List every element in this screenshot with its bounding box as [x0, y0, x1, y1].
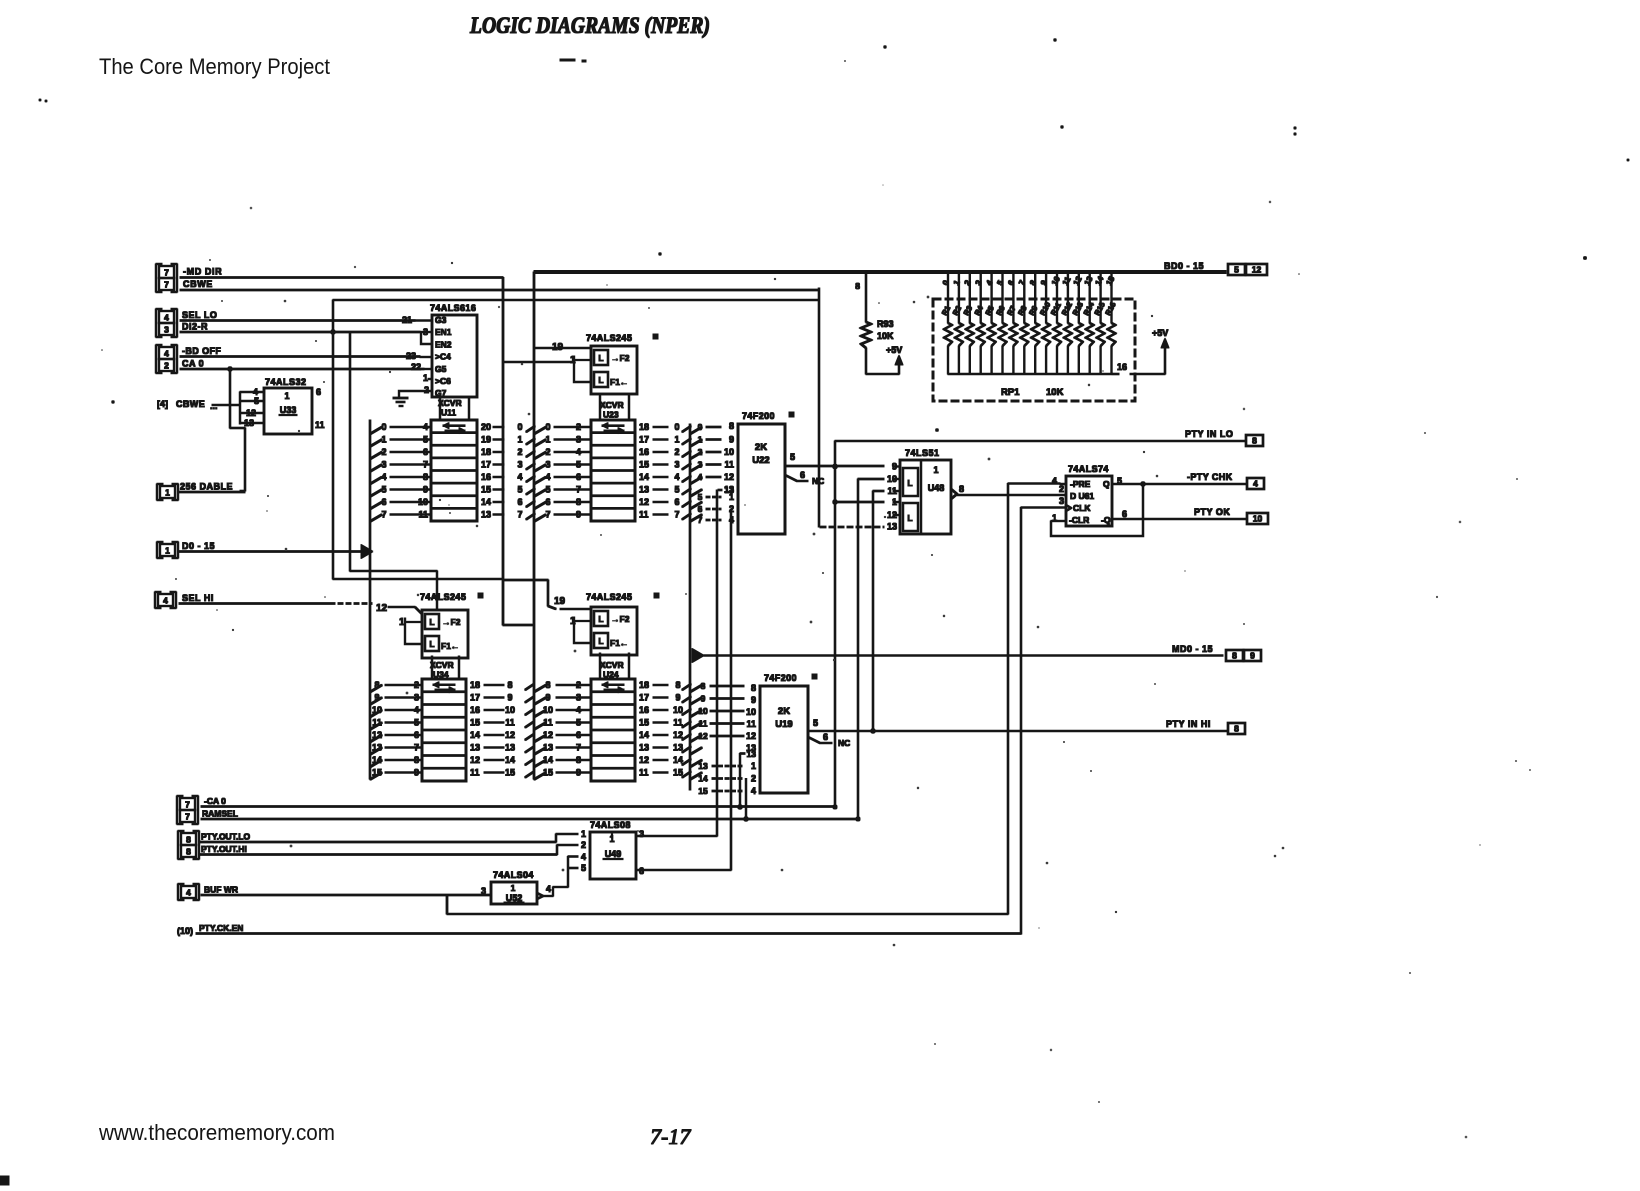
- svg-text:RAMSEL: RAMSEL: [202, 809, 238, 819]
- svg-text:L: L: [598, 375, 603, 385]
- svg-text:5: 5: [1234, 265, 1239, 275]
- svg-text:4: 4: [163, 596, 168, 606]
- svg-text:74LS51: 74LS51: [905, 448, 940, 458]
- svg-text:0: 0: [381, 422, 386, 432]
- svg-text:13: 13: [372, 743, 382, 753]
- svg-text:3: 3: [674, 460, 679, 470]
- svg-text:→F2: →F2: [611, 353, 630, 363]
- svg-text:CA 0: CA 0: [182, 359, 204, 369]
- svg-text:XCVR: XCVR: [438, 398, 462, 408]
- svg-text:9: 9: [675, 693, 680, 703]
- svg-text:2: 2: [424, 385, 429, 395]
- svg-text:-PRE: -PRE: [1070, 479, 1091, 489]
- svg-text:9: 9: [701, 694, 706, 704]
- svg-text:21: 21: [402, 315, 412, 325]
- svg-text:15: 15: [470, 718, 480, 728]
- svg-text:4: 4: [674, 472, 679, 482]
- svg-text:8: 8: [576, 755, 581, 765]
- svg-text:PTY.OUT.HI: PTY.OUT.HI: [201, 844, 247, 854]
- svg-text:9: 9: [414, 768, 419, 778]
- svg-text:DI2-R: DI2-R: [182, 322, 208, 332]
- svg-text:1: 1: [284, 391, 289, 401]
- svg-text:5: 5: [995, 278, 1005, 287]
- svg-text:14: 14: [639, 730, 649, 740]
- svg-text:10: 10: [698, 706, 708, 716]
- svg-text:8: 8: [414, 755, 419, 765]
- svg-text:XCVR: XCVR: [430, 660, 454, 670]
- svg-text:4: 4: [546, 884, 551, 894]
- svg-text:6: 6: [316, 387, 321, 397]
- svg-text:U33: U33: [280, 405, 297, 415]
- svg-text:2K: 2K: [778, 706, 790, 717]
- svg-text:14: 14: [372, 755, 382, 765]
- svg-text:1: 1: [729, 492, 734, 502]
- svg-text:5: 5: [674, 485, 679, 495]
- svg-text:>C6: >C6: [435, 376, 451, 386]
- svg-text:14: 14: [1093, 274, 1105, 287]
- svg-text:PTY IN HI: PTY IN HI: [1166, 719, 1211, 729]
- svg-text:6: 6: [1006, 278, 1016, 287]
- svg-text:19: 19: [554, 596, 566, 607]
- svg-text:2: 2: [164, 361, 169, 371]
- svg-text:18: 18: [470, 680, 480, 690]
- svg-text:11: 11: [699, 719, 708, 729]
- svg-text:7: 7: [698, 515, 703, 525]
- svg-text:0: 0: [941, 278, 951, 287]
- svg-text:15: 15: [372, 768, 382, 778]
- svg-text:7: 7: [517, 510, 522, 520]
- svg-text:[4]: [4]: [157, 399, 168, 409]
- svg-text:U48: U48: [928, 483, 945, 493]
- svg-text:12: 12: [746, 731, 756, 741]
- svg-text:PTY.OUT.LO: PTY.OUT.LO: [201, 832, 251, 842]
- svg-text:15: 15: [673, 768, 683, 778]
- svg-text:2K: 2K: [755, 442, 767, 453]
- svg-text:-CLR: -CLR: [1069, 515, 1089, 525]
- svg-text:3: 3: [481, 886, 486, 896]
- svg-text:11: 11: [639, 510, 649, 520]
- svg-text:14: 14: [505, 755, 515, 765]
- svg-text:8: 8: [186, 835, 191, 845]
- svg-text:18: 18: [639, 422, 649, 432]
- svg-text:8: 8: [1232, 651, 1237, 661]
- svg-text:8: 8: [1252, 436, 1257, 446]
- svg-text:→F2: →F2: [611, 614, 630, 624]
- svg-text:9: 9: [1039, 278, 1049, 287]
- svg-text:15: 15: [639, 460, 649, 470]
- svg-text:12: 12: [1072, 274, 1084, 287]
- svg-text:The Core Memory Project: The Core Memory Project: [99, 54, 330, 79]
- svg-text:R7: R7: [1005, 304, 1017, 317]
- svg-text:R3: R3: [962, 304, 974, 317]
- svg-text:19: 19: [481, 435, 491, 445]
- svg-text:74ALS245: 74ALS245: [586, 333, 632, 343]
- svg-text:74ALS32: 74ALS32: [265, 377, 307, 387]
- svg-text:NC: NC: [838, 738, 850, 748]
- svg-text:6: 6: [674, 497, 679, 507]
- svg-text:3: 3: [576, 435, 581, 445]
- svg-text:1: 1: [399, 617, 405, 628]
- svg-text:10: 10: [724, 447, 734, 457]
- svg-text:...: ...: [210, 401, 218, 411]
- svg-text:3: 3: [414, 693, 419, 703]
- svg-text:G7: G7: [435, 388, 447, 398]
- svg-text:8: 8: [855, 281, 860, 291]
- svg-text:14: 14: [673, 755, 683, 765]
- svg-text:1: 1: [952, 278, 962, 287]
- svg-text:R5: R5: [983, 304, 995, 317]
- svg-text:1: 1: [423, 373, 428, 383]
- svg-text:9: 9: [576, 510, 581, 520]
- svg-text:8: 8: [729, 421, 734, 431]
- svg-text:14: 14: [639, 472, 649, 482]
- svg-text:2: 2: [698, 447, 703, 457]
- svg-text:12: 12: [724, 472, 734, 482]
- svg-text:4: 4: [381, 472, 386, 482]
- svg-text:12: 12: [376, 603, 388, 614]
- svg-text:3: 3: [545, 460, 550, 470]
- svg-text:5: 5: [813, 718, 818, 728]
- svg-text:11: 11: [372, 718, 382, 728]
- svg-text:8: 8: [374, 680, 379, 690]
- svg-text:R2: R2: [951, 304, 963, 317]
- svg-text:11: 11: [505, 718, 515, 728]
- svg-text:7: 7: [381, 510, 386, 520]
- svg-text:9: 9: [576, 768, 581, 778]
- svg-text:7: 7: [164, 280, 169, 290]
- svg-text:6: 6: [414, 730, 419, 740]
- svg-text:11: 11: [639, 768, 649, 778]
- svg-text:7: 7: [576, 743, 581, 753]
- svg-text:3: 3: [639, 829, 644, 839]
- svg-text:1: 1: [165, 546, 170, 556]
- svg-text:9: 9: [1250, 651, 1255, 661]
- svg-text:5: 5: [698, 492, 703, 502]
- svg-text:F1←: F1←: [441, 641, 459, 651]
- svg-text:4: 4: [698, 472, 703, 482]
- svg-text:15: 15: [639, 718, 649, 728]
- svg-text:1: 1: [517, 435, 522, 445]
- svg-text:Q: Q: [1103, 479, 1110, 489]
- svg-text:F1←: F1←: [610, 638, 628, 648]
- svg-text:4: 4: [414, 705, 419, 715]
- svg-text:2: 2: [963, 278, 973, 287]
- svg-text:6: 6: [639, 866, 644, 876]
- svg-text:4: 4: [423, 422, 428, 432]
- svg-text:17: 17: [481, 460, 491, 470]
- svg-text:(10): (10): [177, 926, 193, 936]
- svg-text:2: 2: [517, 447, 522, 457]
- svg-text:3: 3: [974, 278, 984, 287]
- svg-text:12: 12: [698, 731, 708, 741]
- svg-text:L: L: [598, 353, 603, 363]
- svg-text:11: 11: [470, 768, 480, 778]
- svg-text:+5V: +5V: [886, 345, 902, 355]
- svg-text:13: 13: [887, 522, 897, 532]
- svg-text:12: 12: [639, 755, 649, 765]
- svg-text:PTY IN LO: PTY IN LO: [1185, 429, 1233, 439]
- svg-text:2: 2: [581, 840, 586, 850]
- svg-text:5: 5: [381, 485, 386, 495]
- svg-text:6: 6: [517, 497, 522, 507]
- svg-text:3: 3: [517, 460, 522, 470]
- svg-text:4: 4: [581, 852, 586, 862]
- svg-text:15: 15: [698, 786, 708, 796]
- svg-text:3: 3: [381, 460, 386, 470]
- svg-text:16: 16: [470, 705, 480, 715]
- svg-text:7: 7: [185, 812, 190, 822]
- svg-text:11: 11: [746, 719, 756, 729]
- svg-text:1: 1: [581, 829, 586, 839]
- svg-text:6: 6: [576, 730, 581, 740]
- svg-text:2: 2: [545, 447, 550, 457]
- svg-text:R6: R6: [994, 304, 1006, 317]
- svg-text:0: 0: [698, 422, 703, 432]
- svg-text:14: 14: [698, 774, 708, 784]
- svg-text:6: 6: [545, 497, 550, 507]
- svg-text:R1: R1: [940, 304, 952, 317]
- svg-text:D U61: D U61: [1070, 491, 1094, 501]
- svg-text:4: 4: [164, 349, 169, 359]
- svg-text:SEL LO: SEL LO: [182, 310, 217, 320]
- svg-text:8: 8: [701, 681, 706, 691]
- svg-text:4: 4: [164, 313, 169, 323]
- svg-text:0: 0: [545, 422, 550, 432]
- svg-text:6: 6: [576, 472, 581, 482]
- svg-text:BUF WR: BUF WR: [204, 885, 238, 895]
- svg-text:13: 13: [639, 743, 649, 753]
- svg-text:2: 2: [576, 680, 581, 690]
- svg-text:7-17: 7-17: [650, 1124, 691, 1149]
- svg-text:9: 9: [729, 435, 734, 445]
- svg-text:7: 7: [185, 800, 190, 810]
- svg-text:6: 6: [1122, 509, 1127, 519]
- svg-text:74ALS08: 74ALS08: [590, 820, 631, 830]
- svg-text:6: 6: [698, 504, 703, 514]
- svg-text:13: 13: [505, 743, 515, 753]
- svg-text:10: 10: [673, 705, 683, 715]
- svg-text:5: 5: [576, 718, 581, 728]
- svg-text:8: 8: [576, 497, 581, 507]
- svg-text:9: 9: [507, 693, 512, 703]
- svg-text:9: 9: [374, 693, 379, 703]
- svg-text:3: 3: [164, 325, 169, 335]
- svg-text:4: 4: [517, 472, 522, 482]
- svg-text:L: L: [429, 639, 434, 649]
- svg-text:22: 22: [411, 362, 421, 372]
- svg-text:12: 12: [673, 730, 683, 740]
- svg-text:MD0 - 15: MD0 - 15: [1172, 644, 1213, 654]
- svg-text:20: 20: [481, 422, 491, 432]
- svg-text:7: 7: [414, 743, 419, 753]
- svg-text:5: 5: [517, 485, 522, 495]
- svg-text:5: 5: [581, 863, 586, 873]
- svg-text:3: 3: [1059, 496, 1064, 506]
- svg-text:-BD OFF: -BD OFF: [182, 346, 221, 356]
- svg-text:6: 6: [823, 732, 828, 742]
- svg-text:11: 11: [724, 460, 734, 470]
- svg-text:4: 4: [751, 786, 756, 796]
- svg-text:5: 5: [576, 460, 581, 470]
- svg-text:8: 8: [186, 847, 191, 857]
- svg-text:74F200: 74F200: [764, 673, 797, 683]
- svg-text:9: 9: [751, 695, 756, 705]
- svg-text:15: 15: [1104, 274, 1116, 287]
- svg-text:R16: R16: [1103, 301, 1117, 317]
- svg-text:16: 16: [1117, 362, 1127, 372]
- svg-text:L: L: [429, 617, 434, 627]
- svg-text:2: 2: [674, 447, 679, 457]
- svg-text:U19: U19: [775, 719, 792, 730]
- svg-text:XCVR: XCVR: [600, 660, 624, 670]
- svg-text:10: 10: [746, 707, 756, 717]
- svg-text:9: 9: [423, 485, 428, 495]
- svg-text:13: 13: [746, 743, 756, 753]
- svg-text:15: 15: [505, 768, 515, 778]
- svg-text:8: 8: [675, 680, 680, 690]
- svg-text:1: 1: [165, 488, 170, 498]
- svg-text:+5V: +5V: [1152, 328, 1168, 338]
- svg-text:>C4: >C4: [435, 352, 451, 362]
- svg-text:CBWE: CBWE: [176, 399, 205, 409]
- svg-text:6: 6: [800, 470, 805, 480]
- svg-text:3: 3: [576, 693, 581, 703]
- svg-text:7: 7: [576, 485, 581, 495]
- svg-text:8: 8: [959, 484, 964, 494]
- svg-text:5: 5: [414, 718, 419, 728]
- svg-text:4: 4: [576, 705, 581, 715]
- svg-text:L: L: [907, 513, 912, 523]
- svg-text:15: 15: [481, 485, 491, 495]
- svg-text:R4: R4: [973, 304, 986, 317]
- svg-text:10: 10: [418, 497, 428, 507]
- svg-text:1: 1: [381, 435, 386, 445]
- svg-text:8: 8: [1028, 278, 1038, 287]
- svg-text:74ALS74: 74ALS74: [1068, 464, 1109, 474]
- svg-text:10K: 10K: [1046, 387, 1064, 398]
- svg-text:10: 10: [372, 705, 382, 715]
- svg-text:18: 18: [481, 447, 491, 457]
- svg-text:13: 13: [639, 485, 649, 495]
- svg-text:PTY.CK.EN: PTY.CK.EN: [199, 923, 243, 933]
- svg-text:5: 5: [790, 452, 795, 462]
- svg-text:0: 0: [517, 422, 522, 432]
- svg-text:7: 7: [423, 460, 428, 470]
- svg-text:2: 2: [1059, 484, 1064, 494]
- svg-text:R9: R9: [1027, 304, 1039, 317]
- svg-text:0: 0: [674, 422, 679, 432]
- svg-text:9: 9: [892, 462, 897, 472]
- svg-text:LOGIC DIAGRAMS (NPER): LOGIC DIAGRAMS (NPER): [469, 13, 710, 38]
- svg-text:D0 - 15: D0 - 15: [182, 541, 215, 551]
- svg-text:11: 11: [887, 486, 897, 496]
- svg-text:4: 4: [1253, 479, 1258, 489]
- svg-text:1: 1: [674, 435, 679, 445]
- svg-text:11: 11: [1061, 275, 1073, 287]
- svg-text:17: 17: [470, 693, 480, 703]
- svg-text:3: 3: [698, 460, 703, 470]
- svg-text:16: 16: [639, 447, 649, 457]
- svg-text:10K: 10K: [877, 331, 894, 341]
- svg-text:4: 4: [984, 278, 994, 287]
- svg-text:12: 12: [1252, 265, 1262, 275]
- svg-text:74ALS616: 74ALS616: [430, 303, 476, 313]
- svg-text:2: 2: [381, 447, 386, 457]
- svg-text:F1←: F1←: [610, 377, 628, 387]
- svg-text:L: L: [598, 636, 603, 646]
- svg-text:2: 2: [414, 680, 419, 690]
- svg-text:6: 6: [381, 497, 386, 507]
- svg-text:13: 13: [673, 743, 683, 753]
- svg-text:23: 23: [406, 351, 416, 361]
- svg-text:8: 8: [751, 683, 756, 693]
- svg-text:U49: U49: [605, 849, 622, 859]
- svg-text:4: 4: [576, 447, 581, 457]
- svg-text:16: 16: [639, 705, 649, 715]
- svg-text:L: L: [598, 614, 603, 624]
- svg-text:11: 11: [418, 510, 428, 520]
- svg-text:-CA 0: -CA 0: [204, 796, 226, 806]
- svg-text:2: 2: [751, 774, 756, 784]
- svg-text:XCVR: XCVR: [600, 400, 624, 410]
- svg-text:256 DABLE: 256 DABLE: [180, 482, 233, 492]
- svg-text:4: 4: [186, 888, 191, 898]
- svg-text:NC: NC: [812, 476, 824, 486]
- svg-text:-PTY CHK: -PTY CHK: [1187, 472, 1233, 482]
- svg-text:74F200: 74F200: [742, 411, 775, 421]
- svg-text:1: 1: [698, 435, 703, 445]
- svg-text:6: 6: [423, 447, 428, 457]
- svg-text:11: 11: [315, 420, 325, 430]
- svg-text:G3: G3: [435, 315, 447, 325]
- svg-text:L: L: [907, 478, 912, 488]
- svg-text:10: 10: [1050, 274, 1062, 287]
- svg-text:U11: U11: [441, 408, 456, 418]
- svg-text:18: 18: [639, 680, 649, 690]
- svg-text:→F2: →F2: [442, 617, 461, 627]
- svg-text:RP1: RP1: [1001, 387, 1020, 398]
- svg-text:12: 12: [372, 730, 382, 740]
- svg-text:R8: R8: [1016, 304, 1028, 317]
- svg-text:8: 8: [423, 472, 428, 482]
- svg-text:5: 5: [423, 435, 428, 445]
- svg-text:8: 8: [1234, 724, 1239, 734]
- svg-text:7: 7: [545, 510, 550, 520]
- svg-text:14: 14: [470, 730, 480, 740]
- svg-text:EN2: EN2: [435, 339, 452, 349]
- svg-text:14: 14: [481, 497, 491, 507]
- svg-text:8: 8: [507, 680, 512, 690]
- svg-text:12: 12: [470, 755, 480, 765]
- svg-text:BD0 - 15: BD0 - 15: [1164, 261, 1204, 271]
- svg-text:74ALS245: 74ALS245: [586, 592, 632, 602]
- svg-text:13: 13: [470, 743, 480, 753]
- svg-text:74ALS245: 74ALS245: [420, 592, 466, 602]
- svg-text:R93: R93: [877, 319, 894, 329]
- svg-text:EN1: EN1: [435, 327, 452, 337]
- svg-text:1: 1: [933, 465, 938, 475]
- svg-text:13: 13: [698, 761, 708, 771]
- svg-text:www.thecorememory.com: www.thecorememory.com: [98, 1120, 335, 1145]
- svg-text:5: 5: [545, 485, 550, 495]
- svg-text:7: 7: [164, 268, 169, 278]
- svg-text:9: 9: [545, 693, 550, 703]
- svg-text:10: 10: [887, 474, 897, 484]
- svg-text:7: 7: [1017, 278, 1027, 287]
- svg-text:11: 11: [673, 718, 683, 728]
- svg-text:SEL HI: SEL HI: [182, 593, 214, 603]
- svg-text:17: 17: [639, 435, 649, 445]
